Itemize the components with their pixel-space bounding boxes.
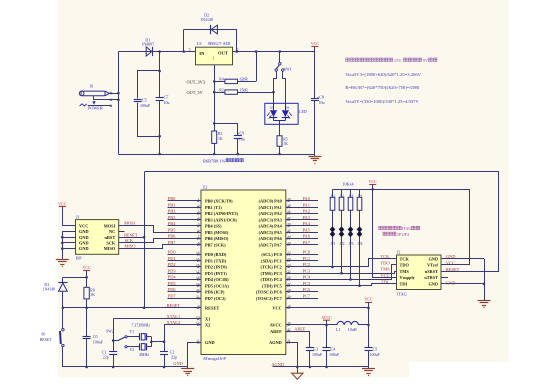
svg-text:20: 20 [196,288,200,292]
svg-text:TMS: TMS [400,269,410,274]
svg-text:GND: GND [79,246,89,251]
ground JTAG [484,299,486,301]
svg-text:OUT_3V3: OUT_3V3 [187,80,205,85]
svg-text:33: 33 [287,241,291,245]
svg-text:PB6 (MISO): PB6 (MISO) [205,236,229,241]
svg-text:SW1: SW1 [284,67,292,71]
svg-text:RESET: RESET [446,267,460,272]
svg-text:12: 12 [196,321,200,325]
svg-text:(ADC5) PA5: (ADC5) PA5 [259,230,283,235]
svg-text:PC6: PC6 [303,287,311,292]
wire SW1 left throw to LED [274,72,277,104]
wire VCC rail to JTAG VTref [441,190,470,265]
capacitor C8 10u output [314,52,316,99]
svg-text:2: 2 [237,48,239,52]
svg-text:PC1: PC1 [303,256,311,261]
svg-text:VTref: VTref [427,263,438,268]
svg-text:10u: 10u [164,100,170,105]
svg-text:U1: U1 [197,41,202,46]
svg-text:10u: 10u [319,100,325,105]
mcu AGND pin 31 [286,343,298,374]
svg-text:JTAG: JTAG [402,226,412,231]
mcu AVCC pin 30 [286,324,337,326]
svg-text:PB2: PB2 [168,209,176,214]
annotation input voltage note [346,58,350,62]
svg-text:PB7: PB7 [168,240,176,245]
svg-text:3: 3 [189,48,191,52]
inductor L1 10uH [337,321,358,325]
resistor R2 10K [341,189,343,197]
wire VCC to JTAG Vsupply [373,190,397,278]
diode D1 1N4007 [146,47,152,56]
switch SW2 crystal select [113,340,118,342]
svg-text:S0: S0 [41,332,45,336]
svg-text:PD7 (OC2): PD7 (OC2) [205,296,226,301]
capacitor C1 22p [113,319,115,352]
svg-text:5: 5 [198,222,200,226]
capacitor C0 100uF reset [86,308,88,336]
svg-text:150R: 150R [240,88,249,92]
wire U1 ADJ pin to divider [214,65,216,131]
svg-text:X1: X1 [205,317,210,322]
svg-text:TMS: TMS [380,267,390,272]
svg-text:GND: GND [205,340,215,345]
svg-text:MISO: MISO [104,246,116,251]
svg-text:10u: 10u [239,137,245,142]
svg-text:30: 30 [287,321,291,325]
svg-text:9: 9 [198,304,200,308]
svg-text:Y1: Y1 [130,330,135,334]
svg-text:1K: 1K [283,142,288,146]
svg-text:36: 36 [287,222,291,226]
svg-text:(TMS) PC3: (TMS) PC3 [260,271,282,276]
svg-text:620R: 620R [240,78,249,82]
svg-text:POWER: POWER [88,106,103,111]
svg-text:(ADC0) PA0: (ADC0) PA0 [259,199,282,204]
svg-text:PD2: PD2 [168,262,176,267]
svg-text:TDO: TDO [400,263,410,268]
svg-text:Vout5V=(330+1000)/330*1.25=4.9: Vout5V=(330+1000)/330*1.25=4.937V [345,99,419,104]
svg-text:(TOSC1) PC6: (TOSC1) PC6 [256,290,283,295]
regulator U1 BM1117-ADJ [196,47,233,65]
svg-text:9V: 9V [423,58,429,63]
svg-text:TDO: TDO [380,261,390,266]
svg-text:Vout3V3=(1800+620)/620*1.25=3.: Vout3V3=(1800+620)/620*1.25=3.266V [345,72,421,77]
svg-text:AREF: AREF [270,329,282,334]
wire TMS PC3 to JTAG [289,272,397,274]
resistor R4 10K [359,189,361,197]
mcu GND pin 11 [188,343,201,367]
mcu AREF pin 32 [286,332,310,348]
svg-text:PB2 (AIN0/INT2): PB2 (AIN0/INT2) [205,211,238,216]
svg-text:4: 4 [198,216,200,220]
resistor R5 1K led [279,124,281,136]
svg-text:21: 21 [196,294,200,298]
svg-text:VCC: VCC [272,306,281,311]
svg-text:(ADC7) PA7: (ADC7) PA7 [259,242,283,247]
svg-text:AREF: AREF [294,327,306,332]
svg-text:100uF: 100uF [140,103,151,108]
jumper JP1 [330,226,336,232]
svg-text:RESET: RESET [40,338,53,342]
svg-text:(TOSC2) PC7: (TOSC2) PC7 [256,296,283,301]
resistor R4 620R [225,79,238,83]
capacitor C2 22p [164,325,166,352]
svg-text:PA3: PA3 [303,215,311,220]
connector J1 ISP header [76,220,119,255]
svg-text:GND: GND [428,282,438,287]
svg-text:PC4: PC4 [303,275,311,280]
wire JP1 to PC2/TCK net [332,237,334,267]
svg-text:PA4: PA4 [303,221,311,226]
svg-text:31: 31 [287,339,291,343]
svg-text:SW2: SW2 [106,329,114,333]
svg-text:22p: 22p [103,355,109,360]
jumper JP2 [339,226,345,232]
mcu right pins PC0-PC7 with net labels [286,254,318,256]
svg-text:1N4148: 1N4148 [43,288,56,292]
svg-text:TDI: TDI [400,282,408,287]
wire JP4 to PC5/TDI net [359,237,361,286]
svg-text:PD3: PD3 [168,268,177,273]
capacitor C7 10u [159,52,161,98]
capacitor C9 10u [214,123,238,125]
svg-text:2: 2 [198,203,200,207]
svg-text:23: 23 [287,257,291,261]
svg-text:TCK: TCK [400,256,410,261]
power port VCC for ISP [59,206,66,208]
svg-text:10: 10 [287,304,291,308]
svg-text:32: 32 [287,327,291,331]
connector J2 JTAG header [397,255,442,290]
svg-text:(ADC1) PA1: (ADC1) PA1 [259,205,282,210]
svg-text:nRST: nRST [104,235,115,240]
svg-text:R4: R4 [358,193,362,197]
power port VCC pullups [369,184,376,186]
wire ISP GND pins [62,231,75,233]
svg-text:GND: GND [79,235,89,240]
power port AVCC [323,319,330,321]
wire SW1 right throw to LED [283,72,286,104]
svg-text:nSRST: nSRST [425,269,438,274]
svg-text:4MHz: 4MHz [139,353,149,357]
power port VCC reset [83,270,90,272]
svg-text:1K: 1K [218,137,223,141]
resistor R3 1K adj [214,143,216,154]
svg-text:PD7: PD7 [168,293,177,298]
svg-text:PD0 (RXD): PD0 (RXD) [205,252,227,257]
mcu left pins PD0-PD7 with net labels [168,254,202,256]
svg-text:7: 7 [198,235,200,239]
wire bottom ground rail (reset/xtal) [63,366,188,368]
wire RESET net top loop to JTAG nSRST [145,172,499,272]
svg-text:VCC: VCC [82,265,91,270]
mcu U2 ATmega16 body [201,190,286,355]
svg-text:35: 35 [287,228,291,232]
svg-text:C4: C4 [331,347,336,352]
svg-text:TDI: TDI [381,279,389,284]
svg-text:R4: R4 [219,78,224,82]
svg-text:C5: C5 [142,98,147,103]
svg-text:(ADC4) PA4: (ADC4) PA4 [259,224,283,229]
svg-text:VCC: VCC [364,297,373,302]
svg-text:PB3: PB3 [168,215,176,220]
wire JP3 to PC4/TDO net [350,237,352,280]
svg-text:R1: R1 [331,193,335,197]
crystal Y1 7.3728MHz [127,336,140,338]
svg-text:22: 22 [287,251,291,255]
svg-text:VCC: VCC [380,273,389,278]
svg-text:J0: J0 [90,84,94,89]
svg-text:MISO: MISO [124,244,135,249]
svg-text:AGND: AGND [271,362,284,367]
svg-text:IN: IN [199,51,205,56]
svg-text:PC3: PC3 [303,268,311,273]
svg-text:R=R6//R7=(620*750)/(620+750)=3: R=R6//R7=(620*750)/(620+750)=339R [345,85,420,90]
svg-text:JP1JP4: JP1JP4 [397,232,410,237]
svg-text:C3: C3 [314,347,319,352]
svg-text:L1: L1 [336,327,340,332]
svg-text:100uF: 100uF [312,352,323,357]
svg-text:PA1: PA1 [303,202,310,207]
svg-text:PD0: PD0 [168,250,177,255]
svg-text:25: 25 [287,269,291,273]
svg-text:10uH: 10uH [348,327,357,332]
jumper JP4 [357,226,363,232]
svg-text:R2: R2 [219,88,224,92]
capacitor C4 100uF avcc [326,325,328,348]
svg-text:ISP: ISP [76,255,83,260]
switch SW1 [279,52,281,63]
svg-text:J1: J1 [76,215,80,220]
svg-text:PB4: PB4 [168,221,176,226]
svg-text:100uF: 100uF [93,339,104,344]
svg-text:3: 3 [198,210,200,214]
svg-text:JTAG: JTAG [397,292,407,297]
svg-text:XTAL2: XTAL2 [167,320,181,325]
capacitor C5b 100uF vcc [365,347,373,349]
wire JTAG GND pins to ground [441,258,484,260]
svg-text:PA6: PA6 [303,234,311,239]
svg-text:(SCL) PC0: (SCL) PC0 [261,252,281,257]
ground ISP [62,258,64,260]
svg-text:ATmega16-P: ATmega16-P [203,356,227,361]
svg-text:16: 16 [196,263,200,267]
svg-text:U2: U2 [203,185,208,190]
switch S0 RESET button [62,308,64,329]
diode D2 1N4148 bypass loop [183,30,185,52]
svg-text:PD1 (TXD): PD1 (TXD) [205,258,227,263]
svg-text:38: 38 [287,210,291,214]
svg-text:R0: R0 [90,289,95,293]
svg-text:PC0: PC0 [303,250,311,255]
svg-text:SCK: SCK [106,241,115,246]
svg-text:OUT: OUT [218,50,228,55]
ground (top section) [314,154,316,156]
svg-text:(ADC6) PA6: (ADC6) PA6 [259,236,283,241]
svg-text:GND: GND [446,281,456,286]
wire VCC vertical to ground [368,308,370,348]
svg-text:GND: GND [79,241,89,246]
svg-text:AVCC: AVCC [270,323,282,328]
power port VCC mcu [365,302,372,304]
ground mcu vcc [368,367,370,369]
svg-text:PD6: PD6 [168,287,177,292]
svg-text:PC7: PC7 [303,293,311,298]
svg-text:(TDO) PC4: (TDO) PC4 [260,277,282,282]
svg-text:PB4 (SS): PB4 (SS) [205,224,222,229]
resistor R2 150R [225,90,238,94]
svg-text:19: 19 [196,282,200,286]
svg-text:PB0: PB0 [168,196,176,201]
svg-text:D5: D5 [270,107,274,110]
svg-text:NC: NC [109,229,115,234]
wire left vertical from J0 [118,52,120,155]
capacitor C3 100uF aref [309,351,311,367]
svg-text:(ADC2) PA2: (ADC2) PA2 [259,211,282,216]
svg-text:37: 37 [287,216,291,220]
svg-text:AGND: AGND [269,340,282,345]
svg-text:Y2: Y2 [130,348,135,352]
svg-text:(TDI) PC5: (TDI) PC5 [262,283,282,288]
svg-text:PD5 (OC1A): PD5 (OC1A) [205,283,229,288]
resistor R0 1K pullup [86,277,88,287]
wire JP2 to PC3/TMS net [341,237,343,274]
svg-text:VCC: VCC [311,41,320,46]
svg-text:GND: GND [446,254,456,259]
resistor network 10Kx4 rail with VCC [333,189,470,191]
svg-text:1K: 1K [90,293,95,297]
svg-text:18: 18 [196,276,200,280]
resistor R1 10K [332,189,334,197]
svg-text:PA0: PA0 [303,196,311,201]
crystal Y2 4MHz [127,346,140,348]
svg-text:GND: GND [79,229,89,234]
capacitor C5 100uF input [138,71,160,99]
svg-text:1N4148: 1N4148 [200,17,213,22]
power port VCC main [311,46,318,48]
ground AGND triangle [292,373,303,379]
svg-text:nTRST: nTRST [424,275,438,280]
svg-text:PD2 (INT0): PD2 (INT0) [205,265,227,270]
svg-text:28: 28 [287,288,291,292]
svg-text:RESET: RESET [124,233,138,238]
mcu X1 pin 13 XTAL1 [113,318,201,320]
svg-text:R3: R3 [349,193,353,197]
svg-text:PD5: PD5 [168,281,177,286]
wire TCK PC2 to JTAG [289,259,397,267]
svg-text:14: 14 [196,251,200,255]
jumper JP3 [348,226,354,232]
svg-text:34: 34 [287,235,291,239]
svg-text:D3: D3 [44,283,49,287]
svg-text:BM117-ADJ: BM117-ADJ [208,41,231,46]
svg-text:LED: LED [299,109,307,114]
svg-text:PA5: PA5 [303,227,311,232]
svg-text:MOSI: MOSI [124,221,136,226]
wire ISP NC stub [119,231,125,233]
svg-text:VCC: VCC [79,223,88,228]
diode D3 1N4148 [62,277,64,282]
svg-text:RESET: RESET [205,306,219,311]
mcu right pins PA0-PA7 with net labels [286,200,318,202]
svg-text:15: 15 [196,257,200,261]
mcu VCC pin 10 [286,307,369,309]
svg-text:100uF: 100uF [370,352,381,357]
svg-text:RESET: RESET [167,303,181,308]
svg-text:(ADC3) PA3: (ADC3) PA3 [259,217,283,222]
wire VCC to D3 [63,277,87,279]
wire ISP VCC pin [62,225,75,227]
wire TDO PC4 to JTAG [289,265,397,280]
wire crystal common to XTAL2 [151,337,153,347]
svg-text:PB7 (SCK): PB7 (SCK) [205,242,226,247]
svg-text:PB6: PB6 [168,234,176,239]
svg-text:X2: X2 [205,322,210,327]
svg-text:1N4007: 1N4007 [141,42,154,47]
connector J0 POWER barrel jack [79,91,109,96]
svg-text:AVCC: AVCC [321,315,332,320]
svg-text:1: 1 [213,56,215,61]
wire OUT_3V3 feedback [214,81,225,83]
svg-text:R2: R2 [340,193,344,197]
svg-text:R6R7R8 1%: R6R7R8 1% [203,158,226,163]
svg-text:VCC: VCC [58,202,67,207]
svg-text:39: 39 [287,203,291,207]
svg-text:40: 40 [287,197,291,201]
svg-text:PD1: PD1 [168,256,176,261]
svg-text:(TCK) PC2: (TCK) PC2 [260,265,281,270]
svg-text:R3: R3 [218,132,223,136]
svg-text:PB1: PB1 [168,202,176,207]
wire bottom ground rail (top section) [118,154,315,156]
wire nTRST stub [441,277,448,279]
svg-text:GND: GND [173,361,183,366]
svg-text:26: 26 [287,276,291,280]
svg-text:GND: GND [428,256,438,261]
svg-text:PB5 (MOSI): PB5 (MOSI) [205,230,229,235]
svg-text:1: 1 [198,197,200,201]
svg-text:VCC: VCC [446,261,455,266]
svg-text:J2: J2 [397,250,401,255]
svg-text:PA2: PA2 [303,209,310,214]
svg-text:OUT_5V: OUT_5V [187,90,204,95]
resistor R3 10K [350,189,352,197]
mcu RESET pin 9 [63,307,201,309]
svg-text:100uF: 100uF [329,352,340,357]
svg-text:PD4 (OC1B): PD4 (OC1B) [205,277,229,282]
svg-text:PD3 (INT1): PD3 (INT1) [205,271,227,276]
svg-text:R5: R5 [283,137,288,141]
svg-text:MOSI: MOSI [104,223,116,228]
svg-text:13: 13 [196,315,200,319]
svg-text:29: 29 [287,294,291,298]
svg-text:Vsupply: Vsupply [400,275,416,280]
svg-text:C5: C5 [373,347,378,352]
svg-text:8: 8 [198,241,200,245]
mcu left pins PB0-PB7 with net labels [168,200,202,202]
wire OUT_5V feedback [214,92,225,94]
svg-text:PB1 (T1): PB1 (T1) [205,205,222,210]
svg-text:PA7: PA7 [303,240,311,245]
svg-text:PD6 (ICP): PD6 (ICP) [205,290,225,295]
svg-text:PB3 (AIN1/OC0): PB3 (AIN1/OC0) [205,217,237,222]
wire RESET net vertical [144,172,146,308]
svg-text:10Kx4: 10Kx4 [342,181,353,186]
svg-text:+C9: +C9 [237,130,244,135]
wire analog ground rail [273,366,369,368]
svg-text:PB5: PB5 [168,227,176,232]
